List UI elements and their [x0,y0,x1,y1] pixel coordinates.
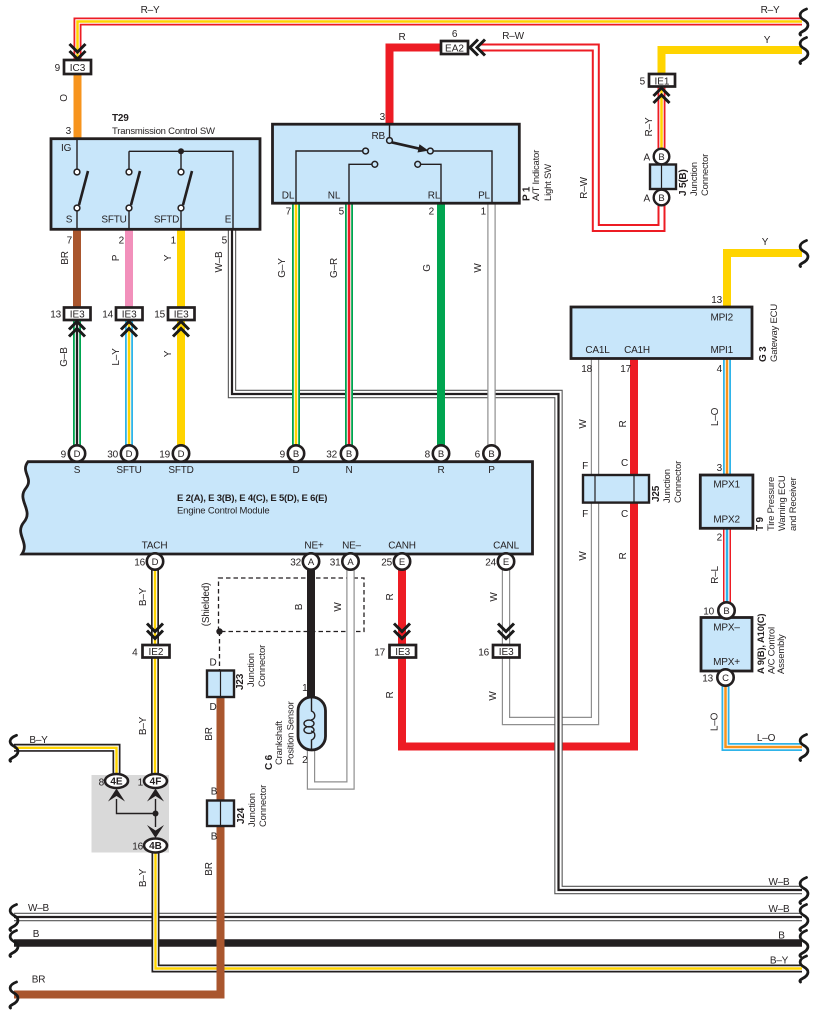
label G3 pins MPI2 CA1L CA1H MPI1 [585,313,733,357]
svg-text:IE3: IE3 [499,647,514,658]
T29 switch S [74,139,88,229]
svg-text:R: R [437,465,444,476]
svg-text:R–Y: R–Y [141,5,160,16]
label ECM top pin numbers 9 30 19 [61,450,171,461]
svg-text:IC3: IC3 [70,63,86,74]
svg-text:MPX+: MPX+ [713,657,740,668]
break symbol B-Y right edge [800,956,808,982]
svg-text:2: 2 [119,236,125,247]
svg-text:C: C [722,673,729,684]
svg-text:B–Y: B–Y [138,716,149,735]
engine control module ECM box [21,462,533,554]
svg-text:R: R [398,32,405,43]
svg-text:Tire Pressure: Tire Pressure [766,477,777,531]
svg-text:6: 6 [452,29,458,40]
gateway ECU G3 box [571,307,752,359]
junction connector J5(B) box [650,165,676,190]
arrow into 16 IE3 [498,624,514,639]
label ECM bottom pins TACH NE+ NE- CANH CANL [142,541,520,552]
connector oval 4F [144,774,167,788]
svg-text:16: 16 [132,842,143,853]
svg-text:B–Y: B–Y [770,956,789,967]
gray box (connector block 4E/4F/4B area) [92,775,170,853]
connector oval 4E [105,774,128,788]
svg-text:Junction: Junction [247,793,258,827]
svg-text:NE+: NE+ [304,541,323,552]
label J25 pin F lower / C lower [582,509,628,520]
svg-text:7: 7 [286,207,292,218]
break symbol W-B upper right edge [800,878,808,904]
svg-text:PL: PL [478,191,490,202]
svg-text:D: D [209,702,216,713]
wire BR from J24 down and left to edge [14,826,221,995]
label J25 designator [651,461,684,503]
svg-text:1: 1 [481,207,487,218]
svg-text:Warning ECU: Warning ECU [777,475,788,531]
svg-text:G: G [422,264,433,272]
svg-text:1: 1 [138,778,144,789]
label J24 designator [236,785,269,827]
svg-text:E: E [225,215,232,226]
svg-text:EA2: EA2 [445,44,464,55]
svg-text:9: 9 [55,63,61,74]
label G3 pin numbers 18 17 4 [581,364,722,375]
svg-text:Position Sensor: Position Sensor [286,701,297,765]
wire R-W from EA2 right, down and to J5(B) pin B [481,48,662,229]
svg-text:Light SW: Light SW [543,164,554,201]
svg-text:CA1H: CA1H [624,345,650,356]
svg-text:15: 15 [154,310,165,321]
ECM pin 8(B) R [433,445,449,461]
svg-text:SFTD: SFTD [168,465,193,476]
svg-text:(Shielded): (Shielded) [201,583,212,627]
connector 9 IC3 box [64,60,91,74]
svg-text:and Receiver: and Receiver [788,477,799,531]
svg-text:18: 18 [581,364,592,375]
svg-text:Connector: Connector [700,154,711,196]
svg-text:E: E [399,557,405,568]
svg-text:B–Y: B–Y [29,735,48,746]
svg-text:R: R [618,420,629,427]
T29 internal contact bar wire [129,151,233,229]
svg-text:D: D [209,658,216,669]
connector 6 EA2 box [441,41,468,55]
svg-text:S: S [74,465,81,476]
svg-text:J25: J25 [651,485,662,502]
P1 contact PL [427,148,433,154]
svg-text:BR: BR [60,251,71,265]
svg-text:R–W: R–W [579,176,590,198]
wire R from P1 pin 3 to EA2 [390,48,443,127]
connector 16 IE3 box [493,645,520,658]
label T9 pins MPX1 MPX2 [713,480,740,526]
svg-text:17: 17 [620,364,631,375]
svg-text:Connector: Connector [258,785,269,827]
A/C control assembly box [701,618,752,672]
svg-text:2: 2 [302,755,308,766]
svg-text:E 2(A), E 3(B), E 4(C), E 5(D): E 2(A), E 3(B), E 4(C), E 5(D), E 6(E) [177,493,327,504]
label T29 designator [112,113,215,137]
svg-text:31: 31 [330,558,341,569]
P1 internal wire NL [349,164,372,203]
svg-text:A 9(B), A10(C): A 9(B), A10(C) [756,614,767,674]
wire CANH R from ECM pin 25 to Gateway ECU CA1H via J25 [402,359,634,747]
svg-text:MPX–: MPX– [713,623,740,634]
svg-text:O: O [59,94,70,102]
svg-text:J24: J24 [236,807,247,824]
svg-text:R–W: R–W [502,31,524,42]
break symbol L-O right edge [800,735,808,761]
wire L-Y from 14 IE3 to ECM pin 30(D) [125,318,133,455]
svg-text:13: 13 [50,310,61,321]
crankshaft position sensor C6 capsule [298,697,326,750]
P1 contact RL [415,161,421,167]
svg-text:D: D [74,449,81,460]
svg-text:L–O: L–O [757,733,776,744]
connector 5 IE1 box [649,74,675,88]
svg-text:BR: BR [32,975,46,986]
label J5B designator [678,154,711,196]
transmission control switch T29 box [51,139,260,230]
wire W NE- from ECM pin 31 looping to crankshaft sensor pin 2 [311,562,351,786]
wire W-B from T29 pin E down, across and to right edge [232,229,802,890]
svg-text:W: W [488,691,499,701]
svg-text:Junction: Junction [246,653,257,687]
svg-text:C: C [621,458,628,469]
svg-text:9: 9 [61,450,67,461]
svg-text:16: 16 [134,558,145,569]
svg-text:G 3: G 3 [758,346,769,362]
svg-text:5: 5 [222,236,228,247]
svg-text:L–O: L–O [710,712,721,731]
arrow into 13 IE3 [69,322,85,337]
P1 internal wire DL [296,151,363,203]
svg-text:7: 7 [67,236,73,247]
connector oval 4B [144,839,167,853]
svg-text:MPX1: MPX1 [713,480,740,491]
svg-text:SFTU: SFTU [101,215,126,226]
wire B ground bus (bottom, full width) [14,939,802,946]
shield dashed box around NE+/NE- wires [219,578,365,632]
svg-text:17: 17 [374,648,385,659]
ECM pin 9(B) D [288,445,304,461]
wire R-Y across top from IC3 to right edge [78,22,803,61]
svg-text:B: B [293,449,299,460]
wire CANL W from ECM pin 24 to Gateway ECU CA1L via J25 [506,359,595,722]
svg-text:CANL: CANL [493,541,520,552]
ECM pin 24(E) CANL [498,553,514,569]
label T9 designator [755,475,799,531]
svg-text:B: B [488,449,494,460]
ECM pin 32(B) N [341,445,357,461]
wire O from IC3 to T29 pin IG [74,72,82,140]
svg-text:3: 3 [717,463,723,474]
svg-text:Assembly: Assembly [776,634,787,674]
svg-text:CANH: CANH [388,541,416,552]
svg-text:W: W [578,419,589,429]
svg-text:5: 5 [640,77,646,88]
connector 14 IE3 box [116,308,143,321]
svg-text:IG: IG [61,143,72,154]
wire BR from T29 pin 7 to 13 IE3 [73,228,81,309]
label ECM bottom pin numbers 16 32 31 25 24 [134,558,496,569]
svg-text:B: B [778,931,785,942]
break symbol B bus left edge [10,931,18,957]
svg-text:B: B [33,929,40,940]
label P1 designator [522,150,555,201]
connector 15 IE3 box [168,308,195,321]
wire Y from T29 pin 1 to 15 IE3 [177,228,185,309]
svg-text:Junction: Junction [662,469,673,503]
connector 13 IE3 box [64,308,91,321]
wire G-Y from P1 pin DL to ECM pin 9(B) [292,202,300,455]
break symbol R-Y right edge [800,9,808,35]
gray box internal wire with junction dot [117,799,159,827]
svg-text:D: D [292,465,299,476]
svg-text:32: 32 [290,558,301,569]
svg-text:2: 2 [717,533,723,544]
svg-text:B: B [723,606,729,617]
svg-text:Gateway ECU: Gateway ECU [769,304,780,362]
svg-text:Junction: Junction [689,162,700,196]
svg-text:BR: BR [204,727,215,741]
svg-text:G–R: G–R [329,258,340,278]
label 13 14 15 IE3 numbers [50,310,165,321]
arrow into IC3 [70,44,86,59]
svg-text:CA1L: CA1L [585,345,610,356]
svg-text:IE3: IE3 [70,310,85,321]
svg-text:BR: BR [204,862,215,876]
svg-text:J 5(B): J 5(B) [678,169,689,196]
junction connector J25 box [583,475,649,503]
svg-text:SFTU: SFTU [116,465,141,476]
svg-text:MPI2: MPI2 [710,313,733,324]
gray box arrow down into 4B [147,825,164,838]
wire W-B ground bus (bottom, full width) [14,913,802,921]
svg-text:32: 32 [326,450,337,461]
svg-text:B: B [438,449,444,460]
svg-text:R–Y: R–Y [644,117,655,136]
svg-text:RL: RL [428,191,441,202]
svg-text:4F: 4F [150,777,162,788]
svg-text:A/T Indicator: A/T Indicator [531,150,542,201]
break symbol B-Y left edge [10,735,18,761]
svg-text:NE–: NE– [342,541,361,552]
svg-text:B: B [294,603,305,610]
svg-text:D: D [152,557,159,568]
svg-text:E: E [503,557,509,568]
svg-text:4: 4 [132,648,138,659]
svg-text:6: 6 [475,450,481,461]
label G3 designator [758,304,780,362]
wire B-Y TACH from ECM pin 16 to connector 4F [151,562,159,777]
junction connector J24 box [207,801,234,827]
junction connector J23 box [207,671,234,698]
svg-text:Crankshaft: Crankshaft [274,721,285,765]
svg-text:J23: J23 [235,673,246,690]
svg-text:1: 1 [302,683,308,694]
svg-text:F: F [582,461,588,472]
wire BR from J23 to J24 [217,696,225,802]
svg-text:Y: Y [163,254,174,261]
ECM pin 6(B) P [483,445,499,461]
svg-text:A: A [308,557,315,568]
svg-text:L–Y: L–Y [111,348,122,366]
svg-text:N: N [345,465,352,476]
connector 4 IE2 box [143,645,170,658]
label ECM top pin numbers 9 32 8 6 [280,450,481,461]
arrow into 15 IE3 [173,322,189,337]
svg-text:W–B: W–B [768,904,790,915]
svg-text:9: 9 [280,450,286,461]
svg-text:MPX2: MPX2 [713,515,740,526]
wire R-L from T9 pin 2 to A/C pin 10(B) [723,527,731,604]
label J25 pin F upper / C upper [582,458,628,472]
arrow into 17 IE3 [394,624,410,639]
P1 contact NL [372,161,378,167]
label T29 pin numbers 7 2 1 5 [67,236,228,247]
ECM pin 25(E) CANH [394,553,410,569]
label J24 pin B upper / B lower [211,787,218,843]
ECM pin 9(D) S [69,445,85,461]
svg-text:8: 8 [99,778,105,789]
svg-text:Connector: Connector [257,645,268,687]
svg-text:IE3: IE3 [174,310,189,321]
svg-text:IE1: IE1 [654,77,669,88]
svg-text:B: B [658,193,664,204]
label P1 pins DL NL RL PL [282,191,491,202]
wire Y from right edge down to 5 IE1 [662,50,803,75]
P1 switch blade arrow [392,142,429,152]
svg-text:DL: DL [282,191,295,202]
J5(B) pin B lower circle [654,190,670,206]
svg-text:MPI1: MPI1 [710,345,733,356]
svg-text:R–Y: R–Y [761,5,780,16]
connector 17 IE3 box [390,645,417,658]
svg-text:C: C [621,509,628,520]
break symbol W-B bus right edge [800,905,808,931]
A/C pin 10(B) [718,602,734,618]
P1 internal wire RB stub [389,124,391,138]
svg-text:B: B [211,832,218,843]
ECM pin 19(D) SFTD [173,445,189,461]
P1 contact RB [387,138,393,144]
svg-text:SFTD: SFTD [154,215,179,226]
arrow into IE2 [147,624,163,639]
T29 switch SFTD [178,151,192,229]
arrow into 14 IE3 [121,322,137,337]
wire P from T29 pin 2 to 14 IE3 [125,228,133,309]
svg-text:S: S [66,215,73,226]
P1 internal wire RL [421,164,442,203]
wire Y from right edge to Gateway ECU pin 13 [727,253,802,308]
svg-text:4E: 4E [110,777,123,788]
label J23 pin D upper / D lower [209,658,216,714]
wire B-Y from 4B down and right to edge [156,850,803,969]
P1 internal wire PL [433,151,492,203]
shield junction dot [216,628,222,634]
svg-text:4: 4 [717,364,723,375]
svg-text:2: 2 [429,207,435,218]
svg-text:19: 19 [159,450,170,461]
svg-text:R: R [618,552,629,559]
svg-text:T29: T29 [112,113,129,124]
break symbol BR left edge [10,982,18,1008]
svg-text:B: B [346,449,352,460]
wire R-Y from 5 IE1 to J5(B) pin B [658,86,666,156]
C6 inductor coil [304,698,315,749]
svg-text:R: R [385,593,396,600]
svg-text:TACH: TACH [142,541,168,552]
wire B-Y from left edge to 4E [14,748,117,776]
svg-text:3: 3 [66,126,72,137]
break symbol Y right edge gateway [800,241,808,267]
label C6 designator [264,701,297,770]
svg-text:B–Y: B–Y [138,868,149,887]
P1 contact DL [363,148,369,154]
svg-text:13: 13 [702,674,713,685]
svg-text:P: P [488,465,495,476]
svg-text:IE3: IE3 [395,647,410,658]
svg-text:3: 3 [380,112,386,123]
svg-text:14: 14 [102,310,113,321]
svg-text:P: P [111,254,122,261]
wire B NE+ from ECM pin 32 to crankshaft sensor pin 1 [307,562,315,700]
svg-text:D: D [126,449,133,460]
svg-text:10: 10 [703,607,714,618]
break symbol Y right edge top [800,38,808,64]
label pin 8 4E and 1 4F [99,778,144,789]
svg-text:B: B [211,787,218,798]
svg-text:IE2: IE2 [148,647,163,658]
svg-text:NL: NL [328,191,341,202]
svg-text:4B: 4B [149,841,162,852]
svg-text:B–Y: B–Y [138,587,149,606]
A/T indicator light switch P1 box [273,124,520,203]
wire Y from 15 IE3 to ECM pin 19(D) [177,318,185,455]
ECM pin 16(D) TACH [147,553,163,569]
svg-text:L–O: L–O [710,407,721,426]
svg-text:16: 16 [478,648,489,659]
svg-text:W–B: W–B [768,877,790,888]
svg-text:1: 1 [171,236,177,247]
wire L-O from Gateway ECU pin MPI1 to T9 pin 3 [723,359,731,478]
wire G-B from 13 IE3 to ECM pin 9(D) [73,318,81,455]
svg-text:RB: RB [372,131,386,142]
svg-text:IE3: IE3 [122,310,137,321]
svg-text:G–Y: G–Y [277,258,288,278]
svg-text:A: A [347,557,354,568]
svg-text:30: 30 [107,450,118,461]
shield drain dashed wire from shield box to J23 [219,632,221,672]
svg-text:5: 5 [339,207,345,218]
svg-text:Transmission Control SW: Transmission Control SW [112,126,215,137]
ECM pin 32(A) NE+ [303,553,319,569]
ECM pin 30(D) SFTU [121,445,137,461]
svg-text:G–B: G–B [59,347,70,367]
svg-text:F: F [582,509,588,520]
gray box arrow up into 4F [147,789,164,802]
svg-text:8: 8 [425,450,431,461]
J5(B) pin B upper circle [654,149,670,165]
svg-text:W–B: W–B [214,251,225,273]
svg-text:Y: Y [163,350,174,357]
svg-text:13: 13 [711,295,722,306]
label A/C designator [756,614,787,674]
svg-text:D: D [178,449,185,460]
T29 junction dot SFTD [178,148,184,154]
tire pressure warning ECU T9 box [700,475,753,528]
